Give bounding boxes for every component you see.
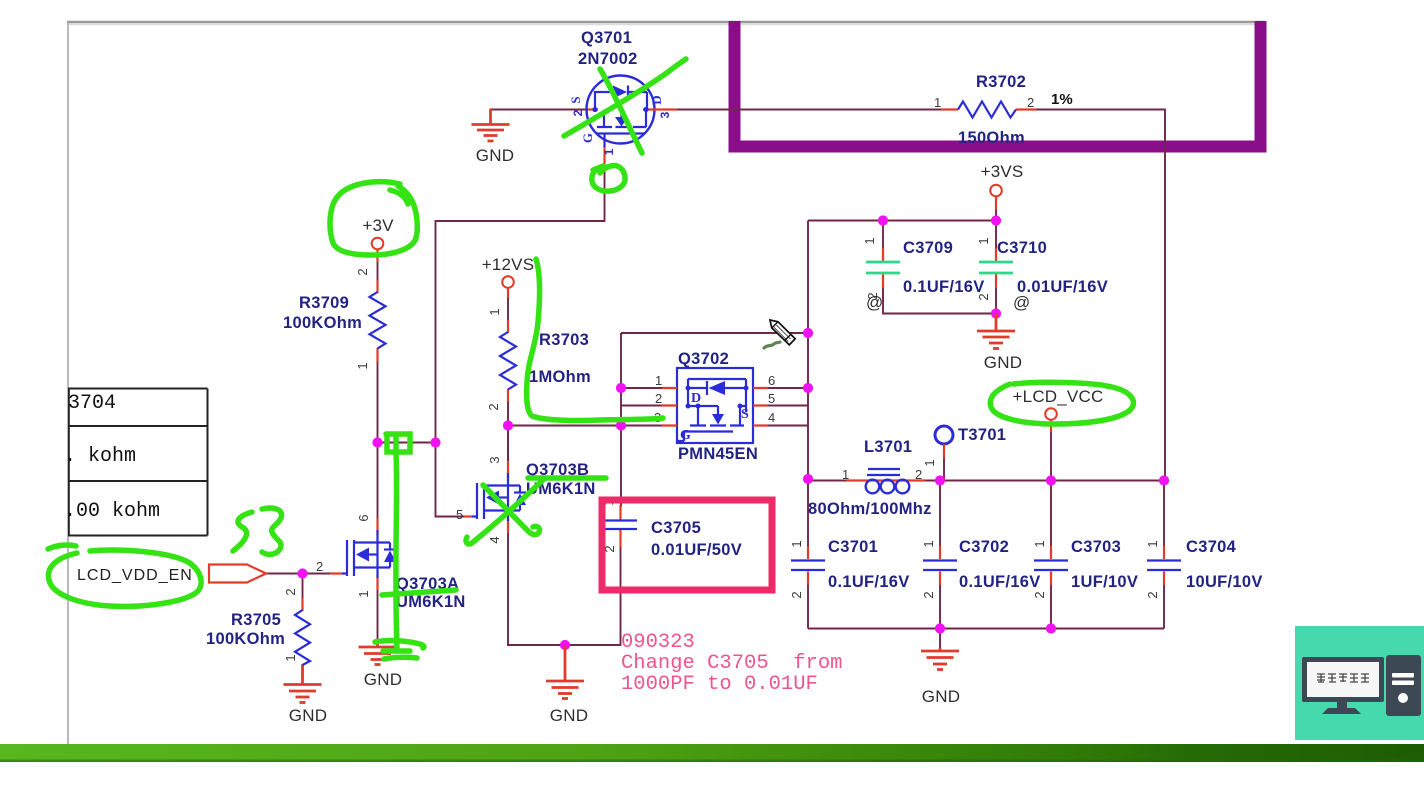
svg-text:6: 6 bbox=[356, 514, 371, 521]
label R3702 + value + tolerance bbox=[934, 73, 1073, 147]
wire: R3705 column bbox=[302, 574, 304, 601]
resistor R3709 bbox=[370, 280, 386, 362]
wire: Q3701 source to GND bbox=[491, 110, 589, 125]
svg-text:GND: GND bbox=[984, 353, 1022, 372]
page top border line bbox=[67, 22, 1265, 25]
svg-text:090323: 090323 bbox=[621, 631, 695, 654]
svg-text:150Ohm: 150Ohm bbox=[958, 129, 1025, 147]
green annotation: circle around +3V bbox=[330, 182, 417, 255]
page left border line bbox=[67, 22, 69, 744]
svg-text:GND: GND bbox=[550, 706, 588, 725]
svg-text:2: 2 bbox=[316, 559, 323, 574]
svg-text:R3705: R3705 bbox=[231, 611, 281, 629]
label Q3703B refdes bbox=[456, 456, 596, 543]
purple highlight bracket (top right) bbox=[735, 21, 1261, 147]
label Q3702 refdes bbox=[678, 350, 758, 463]
svg-text:1: 1 bbox=[283, 654, 298, 661]
svg-text:R3709: R3709 bbox=[299, 294, 349, 312]
logo tower bbox=[1386, 655, 1421, 716]
svg-text:D: D bbox=[691, 391, 701, 406]
svg-text:R3703: R3703 bbox=[539, 331, 589, 349]
label C3710 bbox=[976, 237, 1108, 312]
label Q3701 refdes bbox=[578, 29, 638, 68]
svg-text:2: 2 bbox=[571, 109, 585, 116]
Q3702 pin names D S G bbox=[680, 391, 749, 443]
svg-text:80Ohm/100Mhz: 80Ohm/100Mhz bbox=[808, 500, 932, 518]
inductor L3701 bbox=[846, 469, 925, 493]
svg-text:2: 2 bbox=[915, 467, 922, 482]
wire: Q3702 pin1 stub bbox=[621, 387, 677, 389]
svg-text:R3702: R3702 bbox=[976, 73, 1026, 91]
svg-text:.00 kohm: .00 kohm bbox=[64, 500, 160, 523]
transistor Q3703A (UM6K1N) bbox=[330, 518, 396, 590]
svg-text:1000PF to 0.01UF: 1000PF to 0.01UF bbox=[621, 673, 818, 696]
svg-text:C3705: C3705 bbox=[651, 519, 701, 537]
svg-text:100KOhm: 100KOhm bbox=[206, 630, 285, 648]
logo monitor text strokes bbox=[1317, 674, 1369, 682]
svg-text:2N7002: 2N7002 bbox=[578, 50, 638, 68]
label C3701 bbox=[789, 538, 910, 599]
capacitor C3709 (highlighted green) bbox=[866, 248, 900, 288]
label T3701 bbox=[922, 426, 1006, 467]
svg-text:2: 2 bbox=[921, 591, 936, 598]
svg-text:S: S bbox=[568, 96, 583, 103]
ground (Q3703B / C3705) bbox=[546, 645, 584, 699]
wire: Q3703A drain/source bbox=[377, 589, 379, 646]
wire: Q3702 pin6 stub bbox=[753, 387, 808, 389]
Q3702 pin numbers bbox=[654, 373, 775, 425]
ground (C3709/C3710) bbox=[977, 313, 1015, 349]
wire: Q3702 pin4 stub bbox=[753, 425, 808, 427]
transistor Q3702 (PMN45EN dual FET block) bbox=[662, 368, 768, 443]
svg-text:GND: GND bbox=[476, 146, 514, 165]
svg-text:6: 6 bbox=[768, 373, 775, 388]
label C3709 bbox=[862, 237, 985, 312]
wire: junction row to +3V gate rail bbox=[378, 442, 436, 444]
ground (Q3701 source) bbox=[472, 109, 510, 141]
wire: +LCD_VCC bus through L3701 bbox=[808, 480, 1165, 482]
svg-text:1: 1 bbox=[1145, 540, 1160, 547]
svg-text:0.01UF/50V: 0.01UF/50V bbox=[651, 541, 742, 559]
label L3701 bbox=[808, 438, 932, 518]
wire: Q3703B source / C3705 bottom GND rail bbox=[508, 530, 621, 645]
green annotation: loop under Q3701 bbox=[592, 166, 625, 192]
wire: +12VS through R3703 to Q3702 gate row bbox=[507, 288, 509, 462]
svg-text:1UF/10V: 1UF/10V bbox=[1071, 573, 1138, 591]
wire: Q3703B drain from pin3 row bbox=[507, 426, 509, 465]
svg-text:1: 1 bbox=[1032, 540, 1047, 547]
resistor R3705 bbox=[295, 598, 310, 680]
value table (partially visible, left edge) bbox=[56, 388, 208, 536]
svg-text:D: D bbox=[649, 95, 664, 104]
wire: R3702 pin2 down to +LCD_VCC bus bbox=[1035, 110, 1165, 481]
svg-text:GND: GND bbox=[289, 706, 327, 725]
svg-text:2: 2 bbox=[355, 268, 370, 275]
svg-text:C3710: C3710 bbox=[997, 239, 1047, 257]
green annotation: tick across Q3703A label bbox=[382, 590, 456, 595]
ground (Q3703A) bbox=[359, 640, 397, 665]
capacitor C3702 bbox=[923, 546, 957, 585]
wire: Q3702 pin5 stub bbox=[753, 405, 808, 407]
svg-text:C3703: C3703 bbox=[1071, 538, 1121, 556]
wire: C3709 column bbox=[882, 221, 884, 251]
transistor Q3703B (UM6K1N) bbox=[464, 461, 526, 533]
wire: Q3702 pin2 stub bbox=[621, 405, 677, 407]
svg-text:2: 2 bbox=[976, 293, 991, 300]
svg-text:. kohm: . kohm bbox=[64, 445, 136, 468]
svg-text:C3702: C3702 bbox=[959, 538, 1009, 556]
svg-text:1: 1 bbox=[602, 148, 616, 155]
svg-text:3: 3 bbox=[487, 456, 502, 463]
svg-text:1: 1 bbox=[934, 95, 941, 110]
svg-text:G: G bbox=[680, 428, 691, 443]
svg-text:1: 1 bbox=[655, 373, 662, 388]
svg-text:LCD_VDD_EN: LCD_VDD_EN bbox=[77, 567, 193, 584]
svg-text:+3V: +3V bbox=[362, 216, 394, 235]
wire: C3702 column bbox=[939, 481, 941, 629]
power node +3V bbox=[372, 238, 384, 262]
svg-text:2: 2 bbox=[1145, 591, 1160, 598]
wire: C3704 column bbox=[1163, 481, 1165, 629]
green annotation: ellipse around +LCD_VCC bbox=[990, 382, 1133, 424]
wire: +3VS top bus bbox=[808, 220, 996, 222]
svg-text:2: 2 bbox=[1027, 95, 1034, 110]
green annotation: X strike over Q3701 bbox=[564, 59, 686, 153]
svg-text:1: 1 bbox=[356, 590, 371, 597]
green annotation: ellipse around LCD_VDD_EN bbox=[48, 545, 201, 606]
green annotation: X strike over Q3703B bbox=[466, 479, 544, 544]
net connector arrow LCD_VDD_EN bbox=[209, 565, 266, 583]
svg-text:C3704: C3704 bbox=[1186, 538, 1237, 556]
svg-text:Q3701: Q3701 bbox=[581, 29, 632, 47]
ECN note text (pink) bbox=[621, 631, 842, 696]
capacitor C3703 bbox=[1034, 546, 1068, 585]
logo monitor stand bbox=[1322, 702, 1361, 714]
svg-text:10UF/10V: 10UF/10V bbox=[1186, 573, 1263, 591]
power node +3VS bbox=[990, 185, 1002, 210]
wire: caps bottom GND rail bbox=[808, 629, 1164, 651]
svg-text:C3701: C3701 bbox=[828, 538, 878, 556]
svg-text:0.1UF/16V: 0.1UF/16V bbox=[903, 278, 985, 296]
svg-text:2: 2 bbox=[789, 591, 804, 598]
svg-text:2: 2 bbox=[486, 403, 501, 410]
pink highlight box around C3705 bbox=[602, 500, 772, 590]
svg-text:5: 5 bbox=[768, 391, 775, 406]
svg-text:1: 1 bbox=[862, 237, 877, 244]
svg-text:G: G bbox=[580, 133, 595, 143]
label R3703 bbox=[486, 308, 591, 410]
green annotation: underline Q3703B bbox=[528, 475, 606, 481]
wire: Q3701 drain to R3702 pin1 bbox=[675, 109, 942, 111]
svg-text:3: 3 bbox=[658, 111, 672, 118]
capacitor C3704 bbox=[1147, 546, 1181, 585]
svg-text:1: 1 bbox=[789, 540, 804, 547]
svg-text:0.01UF/16V: 0.01UF/16V bbox=[1017, 278, 1108, 296]
capacitor C3710 (highlighted green) bbox=[979, 248, 1013, 288]
logo monitor bbox=[1302, 657, 1384, 702]
capacitor C3705 bbox=[604, 505, 637, 547]
label C3705 bbox=[601, 498, 742, 559]
watermark logo background bbox=[1295, 626, 1424, 740]
svg-text:Change C3705 from: Change C3705 from bbox=[621, 652, 842, 675]
wire: T3701 stub bbox=[943, 452, 945, 480]
wire: LCD_VDD_EN net to Q3703A gate bbox=[266, 573, 342, 575]
svg-text:Q3702: Q3702 bbox=[678, 350, 729, 368]
bottom green bar bbox=[0, 744, 1424, 762]
wire: Q3702 top loop bbox=[621, 332, 808, 334]
wire: Q3701 gate net (+3V pull-up rail) bbox=[436, 162, 605, 517]
Q3701 pin names S D G bbox=[568, 95, 664, 143]
label R3709 bbox=[283, 268, 370, 369]
svg-text:0.1UF/16V: 0.1UF/16V bbox=[959, 573, 1041, 591]
label C3702 bbox=[921, 538, 1041, 599]
svg-text:1: 1 bbox=[921, 540, 936, 547]
wire: C3705 feed from pin3 row bbox=[620, 333, 622, 507]
svg-text:GND: GND bbox=[922, 687, 960, 706]
green annotation: long vertical stroke through Q3703A bbox=[396, 453, 397, 650]
green annotation: 33 squiggle bbox=[233, 508, 282, 554]
mouse cursor (pencil) bbox=[770, 320, 795, 345]
svg-text:1: 1 bbox=[842, 467, 849, 482]
ground (R3705) bbox=[284, 665, 322, 703]
wire: C3709/C3710 bottom tie to GND bbox=[883, 285, 996, 322]
wire: C3710 column bbox=[995, 208, 997, 250]
svg-text:+12VS: +12VS bbox=[482, 255, 535, 274]
svg-text:4: 4 bbox=[487, 536, 502, 543]
wire: C3701 column bbox=[807, 481, 809, 629]
green annotation: small box at +3V junction bbox=[386, 434, 410, 453]
svg-text:T3701: T3701 bbox=[958, 426, 1006, 444]
svg-text:1MOhm: 1MOhm bbox=[529, 368, 591, 386]
label R3705 bbox=[206, 588, 298, 661]
svg-text:C3709: C3709 bbox=[903, 239, 953, 257]
svg-text:+3VS: +3VS bbox=[981, 162, 1024, 181]
svg-text:100KOhm: 100KOhm bbox=[283, 314, 362, 332]
wire: C3703 column bbox=[1050, 481, 1052, 629]
label C3704 bbox=[1145, 538, 1263, 599]
green annotation: scribble over Q3703A ground bbox=[375, 641, 424, 659]
svg-text:1: 1 bbox=[922, 459, 937, 466]
svg-text:@: @ bbox=[866, 293, 883, 312]
svg-text:1%: 1% bbox=[1051, 91, 1073, 108]
transistor Q3701 (2N7002, circled symbol) bbox=[587, 76, 678, 165]
svg-text:+LCD_VCC: +LCD_VCC bbox=[1013, 387, 1104, 406]
svg-text:PMN45EN: PMN45EN bbox=[678, 445, 758, 463]
svg-text:1: 1 bbox=[976, 237, 991, 244]
svg-text:2: 2 bbox=[655, 391, 662, 406]
wire: +3V through R3709 down to junction bbox=[377, 252, 379, 518]
capacitor C3701 bbox=[791, 546, 825, 585]
label C3703 bbox=[1032, 538, 1138, 599]
svg-text:1: 1 bbox=[487, 308, 502, 315]
green annotation: curve from +12VS along R3703 to pin3 bbox=[527, 259, 663, 421]
Q3701 pin numbers 2 3 1 bbox=[571, 109, 672, 155]
svg-text:L3701: L3701 bbox=[864, 438, 912, 456]
resistor R3703 bbox=[500, 320, 516, 402]
ground (output caps) bbox=[921, 648, 959, 670]
svg-text:S: S bbox=[741, 407, 749, 422]
svg-text:@: @ bbox=[1013, 293, 1030, 312]
svg-text:4: 4 bbox=[768, 410, 775, 425]
svg-text:GND: GND bbox=[364, 670, 402, 689]
svg-text:2: 2 bbox=[1032, 591, 1047, 598]
wire: +3VS branch vertical bbox=[807, 221, 809, 481]
resistor R3702 bbox=[941, 102, 1036, 118]
label Q3703A refdes bbox=[316, 514, 466, 611]
svg-text:1: 1 bbox=[355, 362, 370, 369]
wire: Q3702 pin3 row bbox=[508, 425, 677, 427]
test point T3701 bbox=[935, 426, 953, 458]
small olive stroke near cursor bbox=[764, 342, 780, 348]
power node +LCD_VCC bbox=[1045, 408, 1057, 432]
svg-text:5: 5 bbox=[456, 507, 463, 522]
power node +12VS bbox=[502, 276, 514, 298]
svg-text:2: 2 bbox=[283, 588, 298, 595]
svg-text:0.1UF/16V: 0.1UF/16V bbox=[828, 573, 910, 591]
wire: +LCD_VCC power stub bbox=[1050, 428, 1052, 480]
